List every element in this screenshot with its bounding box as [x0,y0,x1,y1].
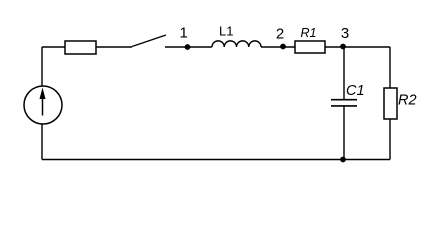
wire left vertical [41,47,43,160]
resistor R2 label [398,93,417,109]
svg-text:3: 3 [341,25,349,42]
wire inductor to node 2 [261,46,295,48]
wire switch to inductor [165,46,212,48]
node 2 label [276,26,284,43]
svg-text:R1: R1 [301,26,317,40]
node 1 label [180,25,188,42]
wire resistor to switch [96,46,132,48]
svg-text:L1: L1 [219,23,233,38]
svg-text:1: 1 [180,25,188,42]
resistor R1 label [301,26,317,40]
wire top segment from source to resistor [42,46,65,48]
resistor R1 [295,41,325,53]
svg-text:R2: R2 [398,93,417,109]
wire node 3 down to capacitor [343,47,345,100]
node 1 junction dot [185,44,191,50]
inductor L1 [212,41,261,47]
wire right vertical bottom [389,119,391,160]
node 2 junction dot [280,44,286,50]
resistor R2 [384,88,397,119]
wire capacitor to bottom [343,106,345,160]
switch S1 (open blade) [132,35,166,47]
capacitor C1 label [346,83,365,99]
wire right vertical top [389,47,391,88]
current source I1 [24,86,62,124]
svg-text:C1: C1 [346,83,365,99]
wire R1 to right corner [325,46,390,48]
inductor L1 value label [219,23,233,38]
wire bottom horizontal [42,159,390,161]
node 3 label [341,25,349,42]
svg-text:2: 2 [276,26,284,43]
node 3 junction dot [340,44,346,50]
capacitor C1 [331,100,357,106]
resistor (unlabeled) [65,41,96,54]
bottom junction dot below C1 [340,157,346,163]
